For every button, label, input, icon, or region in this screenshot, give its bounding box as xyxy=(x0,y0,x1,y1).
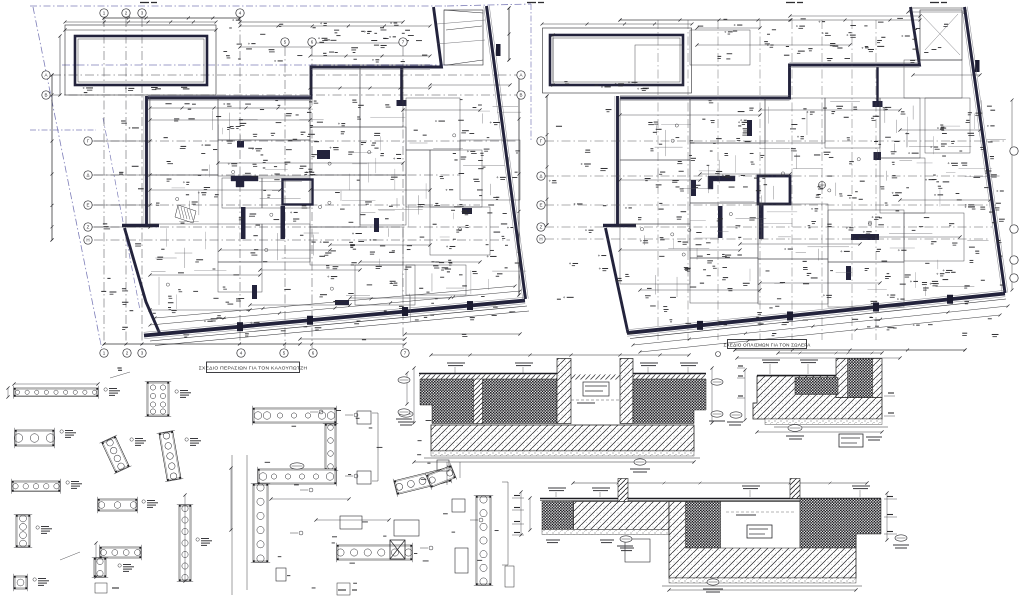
svg-text:H: H xyxy=(539,237,542,242)
bottom dimension chain xyxy=(104,343,300,345)
grid bubbles right A-B xyxy=(517,71,525,79)
level ovals right xyxy=(711,411,723,417)
column stub K4 xyxy=(462,208,472,214)
tall pier 2 above ground xyxy=(790,479,800,499)
pointer lines upper detail xyxy=(110,372,130,378)
column stub K6 xyxy=(252,285,257,299)
white gap room section3 xyxy=(721,502,801,549)
assembly H-bar mid xyxy=(258,467,337,486)
right wall stipple block xyxy=(633,379,706,424)
east boundary thick wall xyxy=(487,6,526,299)
tall pier 1 above ground xyxy=(618,479,628,530)
interior partition rectangles xyxy=(150,98,218,175)
NE room diagonals right plan xyxy=(922,15,960,55)
top leaders section2 ticks xyxy=(737,367,745,369)
foundation section Tomi 1-8 xyxy=(396,353,725,472)
title box plan of passes xyxy=(207,362,300,373)
underline deep section3 xyxy=(662,585,862,587)
left foundation plan group xyxy=(30,4,531,358)
title box plan of reinforcement xyxy=(728,340,807,349)
thin outline around upper-left shaft rectangle right plan xyxy=(543,28,692,93)
south wall lower parallel line xyxy=(150,306,527,341)
wall outline shadows right plan xyxy=(620,100,790,102)
column section K8 slanted tall xyxy=(157,430,184,481)
svg-text:B: B xyxy=(519,93,522,98)
underline section2 xyxy=(774,426,888,428)
top dimension chain xyxy=(104,17,240,19)
south wall parallel thin lines xyxy=(630,299,1006,339)
extra speck clusters right plan xyxy=(722,253,725,255)
left vertical dimension chain xyxy=(51,75,53,240)
top dimension chain section1 xyxy=(431,354,689,356)
right vertical dimension xyxy=(518,75,520,295)
beam-column assembly details center xyxy=(232,406,650,595)
thick-walled small room at axis 5-6 xyxy=(283,180,313,205)
X-braced anchor square xyxy=(390,540,405,559)
assembly H-bar top xyxy=(253,406,337,425)
column section L10 xyxy=(100,545,142,560)
NE white room right plan xyxy=(920,10,962,60)
bottom dim section2 xyxy=(757,431,882,433)
main footing hatch slab xyxy=(431,425,694,451)
thin outline around upper-left shaft rectangle xyxy=(65,25,216,95)
tall hatched pier A xyxy=(557,359,571,424)
annotation text specks left plan xyxy=(385,104,389,106)
grid bubbles right plan right side xyxy=(1010,147,1018,155)
column block top xyxy=(874,152,882,160)
blue partial line at Gamma level xyxy=(30,129,96,131)
assembly V-bar right xyxy=(323,424,338,471)
column bar small xyxy=(846,266,851,280)
bottom dimension section1 xyxy=(414,461,694,463)
NE wall nub xyxy=(496,44,501,56)
label box TOMH G-D xyxy=(839,434,863,447)
assembly H-bar low xyxy=(337,543,413,562)
tiny node circles right plan xyxy=(868,221,871,224)
blinding dotted band xyxy=(431,451,694,456)
misc thin leader lines xyxy=(410,296,412,322)
ground line left span xyxy=(419,373,557,375)
grid bubbles bottom 1-7 xyxy=(100,349,108,357)
NE wall nub right plan xyxy=(975,60,980,72)
stub footing block right plan xyxy=(873,101,883,107)
upper-left thick shaft rectangle xyxy=(75,36,207,85)
annotation clusters above section1 xyxy=(447,362,465,364)
leftover marks bottom strip xyxy=(95,583,107,593)
tall pier hatch section2 xyxy=(836,359,882,398)
stub footing block xyxy=(397,100,407,106)
blue site-boundary dash-dot top line xyxy=(30,5,447,7)
west slanted wall xyxy=(125,228,160,333)
wall bar west xyxy=(718,206,723,238)
svg-text:A: A xyxy=(519,73,522,78)
stamp specks top edge xyxy=(140,2,149,4)
interior dimension web xyxy=(150,119,310,121)
level ovals left xyxy=(398,409,410,415)
stair detail NW xyxy=(175,205,196,223)
fill texture zones left plan xyxy=(435,298,438,300)
south perimeter wall right plan xyxy=(627,294,1005,334)
main wall run at level B xyxy=(148,7,442,98)
column section K7 slanted xyxy=(100,435,132,474)
extra leader lines left plan xyxy=(352,151,372,153)
wall hatch highlight xyxy=(148,95,311,97)
blue boundary left diagonal xyxy=(33,7,100,340)
right reinforcement plan group xyxy=(537,7,1018,360)
blue boundary NE segment xyxy=(447,4,531,6)
west slanted wall right plan xyxy=(606,228,629,333)
svg-text:Z: Z xyxy=(87,225,90,230)
west wall vertical right plan xyxy=(616,96,619,224)
annotation clusters above section2 xyxy=(762,359,780,361)
column bar center xyxy=(747,120,752,136)
column bar K-right xyxy=(851,234,879,240)
horizontal grid dash right plan xyxy=(545,140,1004,142)
left edge dims section3 xyxy=(520,492,522,535)
deep footing hatch section3 xyxy=(669,502,856,579)
column stub K1 xyxy=(241,207,246,239)
fill texture zones right plan xyxy=(766,270,770,272)
annotation specks right plan xyxy=(943,181,950,183)
assembly V-bar left-down xyxy=(251,484,270,563)
leader in gap section3 xyxy=(726,511,795,513)
column sections sheet area xyxy=(6,368,232,591)
column nubs on left plan south wall xyxy=(237,322,243,331)
bottom dimension section3 xyxy=(669,589,856,591)
leader texts right of box xyxy=(866,436,882,438)
blinding band section2 xyxy=(765,419,882,425)
dimension tick chains left plan xyxy=(65,21,216,23)
svg-text:H: H xyxy=(86,238,89,243)
main wall run right plan xyxy=(620,7,920,98)
label boxes center group xyxy=(357,411,371,424)
footing hatch slab section2 xyxy=(753,376,882,419)
foundation section E-Z wide xyxy=(290,463,909,592)
bracket lines center group xyxy=(271,498,349,500)
slanted beam detail xyxy=(393,465,452,496)
right tick section2 xyxy=(884,395,895,397)
shaft south bar xyxy=(759,204,764,239)
grid bubbles right plan left side xyxy=(537,137,545,145)
extra leader lines right plan xyxy=(867,289,886,291)
left wall stipple block xyxy=(420,379,557,424)
NE corner tie details xyxy=(437,20,485,24)
dimension tick chains right plan xyxy=(542,23,692,25)
svg-text:E: E xyxy=(539,203,542,208)
leader inside gap xyxy=(571,399,620,401)
shallow stipple band section2 xyxy=(795,378,838,395)
small box under center details xyxy=(337,583,350,595)
right stipple block section3 xyxy=(800,499,881,549)
level ovals section2 xyxy=(730,412,742,418)
wall stub axis xyxy=(876,67,878,104)
column section K6 grid xyxy=(145,382,171,417)
shallow slab hatch left section3 xyxy=(574,502,670,530)
ground line section2 xyxy=(757,375,838,377)
column nubs on right plan south wall xyxy=(697,321,703,330)
dim brackets for details xyxy=(7,388,9,397)
NE diagonal tie lines xyxy=(446,26,482,30)
tall hatched pier B xyxy=(620,359,633,424)
grid bubbles 5-7 xyxy=(281,38,289,46)
blue inner diagonal xyxy=(103,118,140,310)
top dimension chain section3 xyxy=(573,482,867,484)
svg-text:ΣΧΕΔΙΟ ΠΕΡΑΣΙΩΝ ΓΙΑ ΤΟΝ ΚΑΛΟΥΠ: ΣΧΕΔΙΟ ΠΕΡΑΣΙΩΝ ΓΙΑ ΤΟΝ ΚΑΛΟΥΠΩΤΖΗ xyxy=(199,366,308,372)
L-wall NW of shaft xyxy=(708,176,735,189)
annotation clusters above section3 xyxy=(548,487,566,489)
dimensions right plan xyxy=(620,19,790,21)
svg-text:Δ: Δ xyxy=(539,174,542,179)
top dimension chain section2 xyxy=(778,352,882,354)
slanted beam small xyxy=(425,463,457,489)
column section T1 long xyxy=(14,386,99,399)
vertical grid dash right plan xyxy=(657,20,659,340)
svg-text:B: B xyxy=(44,93,47,98)
blue diagonal to bottom detail area xyxy=(100,340,104,358)
grid bubbles left A-H xyxy=(42,71,50,79)
oval mark top xyxy=(399,411,413,417)
column section T4 vertical xyxy=(14,515,32,548)
left vertical dim section1 xyxy=(413,368,415,423)
speckle texts below section3 left xyxy=(546,539,560,541)
right vertical dim section1 xyxy=(711,368,713,423)
ground line right span xyxy=(631,373,706,375)
left stipple block section3 xyxy=(542,502,574,530)
level oval bottom xyxy=(634,459,646,465)
small text specks center xyxy=(427,462,430,464)
deep blinding band section3 xyxy=(669,578,856,583)
left step lines section2 xyxy=(753,402,757,404)
column section T2 xyxy=(14,428,55,448)
leader ticks center xyxy=(345,414,353,416)
elevator shaft thick square xyxy=(758,176,790,204)
ground hatch strip xyxy=(419,375,706,380)
column section L10 leg xyxy=(92,558,108,578)
wall stub at axis 7 xyxy=(400,67,403,103)
grid bubbles top 1-4 xyxy=(100,9,108,17)
vertical leaders to section above xyxy=(446,462,448,485)
V-column detail right xyxy=(474,496,493,586)
tall pier stipple core xyxy=(848,359,873,398)
column section T9 xyxy=(98,497,138,513)
svg-text:A: A xyxy=(44,73,47,78)
west wall corner stub xyxy=(122,224,159,227)
column stub K8 xyxy=(335,300,349,305)
right edge dims section3 xyxy=(886,493,888,540)
horizontal grid axes A-H xyxy=(52,74,517,76)
column stub L-shape K2 xyxy=(231,176,258,187)
NE white room outline xyxy=(444,10,483,65)
tiny node circles left plan xyxy=(368,151,371,154)
east boundary thick wall right plan xyxy=(965,7,1006,293)
column section T11 tall xyxy=(177,505,193,582)
west wall vertical xyxy=(145,96,148,224)
upper-left thick shaft rectangle right plan xyxy=(550,35,683,85)
hatched pier inside left block xyxy=(474,379,483,424)
shallow blinding left section3 xyxy=(542,530,669,535)
svg-text:E: E xyxy=(86,203,89,208)
ground line section3 xyxy=(540,498,881,500)
survey point symbol xyxy=(819,182,826,189)
foundation section Gamma-Delta xyxy=(727,351,895,447)
blue right vertical xyxy=(530,4,532,140)
level ovals section3 xyxy=(895,535,907,541)
column bar axis6 xyxy=(691,180,696,196)
underline section1 xyxy=(424,457,700,459)
south perimeter wall xyxy=(144,301,525,336)
extra speck clusters left plan xyxy=(361,142,366,144)
blue axis through upper rectangle xyxy=(62,64,447,66)
column block K5 xyxy=(317,150,330,159)
svg-text:ΣΧΕΔΙΟ ΟΠΛΙΣΜΩΝ ΓΙΑ ΤΟΝ ΣΩΛΕΡΑ: ΣΧΕΔΙΟ ΟΠΛΙΣΜΩΝ ΓΙΑ ΤΟΝ ΣΩΛΕΡΑ xyxy=(724,342,812,347)
column stub K3 below room xyxy=(281,206,286,239)
column stub K7 xyxy=(374,218,379,232)
west corner stub right plan xyxy=(603,224,636,227)
black block on axis Gamma xyxy=(237,141,244,148)
left vertical dim section2 xyxy=(744,370,746,420)
column section T5 square xyxy=(14,574,28,591)
wall outline shadows left plan xyxy=(148,100,311,102)
svg-text:Δ: Δ xyxy=(86,173,89,178)
misc leader lines right plan xyxy=(889,232,932,234)
interior partitions right plan xyxy=(620,98,690,160)
room gap label box TOMH xyxy=(583,382,609,396)
vertical grid axes 1-7 xyxy=(103,18,105,348)
label box TOMH E-Z xyxy=(747,525,772,538)
middle stipple pier section3 xyxy=(686,502,721,549)
column section T3 xyxy=(12,479,61,494)
svg-text:Z: Z xyxy=(540,225,543,230)
